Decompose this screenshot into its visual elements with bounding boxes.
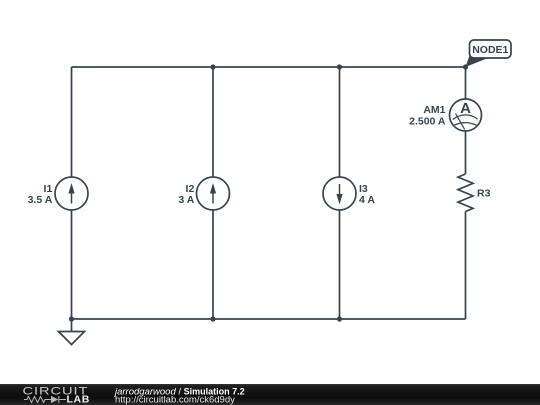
label AM1 value 2.500 A xyxy=(409,104,446,128)
wire bottom horizontal xyxy=(72,318,466,320)
label I3 value 4 A xyxy=(359,183,375,206)
wire right vertical upper (node to ammeter to resistor) xyxy=(465,67,467,174)
junction node bottom I3 xyxy=(337,316,342,321)
svg-text:AM1: AM1 xyxy=(423,104,445,116)
label I1 value 3.5 A xyxy=(28,183,53,206)
junction node top I2 xyxy=(210,64,215,69)
wire left vertical (I1 branch) xyxy=(71,67,73,319)
svg-text:4 A: 4 A xyxy=(359,194,375,206)
ground xyxy=(59,319,85,345)
current source I1 xyxy=(55,177,88,210)
wire I2 branch vertical xyxy=(212,67,214,319)
current source I2 xyxy=(197,177,230,210)
junction node top I3 xyxy=(337,64,342,69)
label I2 value 3 A xyxy=(178,183,194,206)
wire top horizontal xyxy=(72,66,466,68)
junction node ground xyxy=(69,316,74,321)
junction node bottom I2 xyxy=(210,316,215,321)
svg-text:2.500 A: 2.500 A xyxy=(409,116,446,128)
svg-text:LAB: LAB xyxy=(67,394,90,405)
svg-text:R3: R3 xyxy=(477,188,491,200)
resistor R3 xyxy=(458,174,473,212)
svg-text:3 A: 3 A xyxy=(178,194,194,206)
wire right vertical lower (resistor to bottom) xyxy=(465,212,467,320)
junction node NODE1 xyxy=(463,64,468,69)
current source I3 xyxy=(323,177,356,210)
logo resistor squiggle + diode xyxy=(24,396,66,403)
ammeter AM1 xyxy=(450,99,482,131)
node NODE1 flag xyxy=(466,40,512,67)
svg-text:NODE1: NODE1 xyxy=(472,44,508,56)
wire I3 branch vertical xyxy=(339,67,341,319)
svg-text:http://circuitlab.com/ck6d9dy: http://circuitlab.com/ck6d9dy xyxy=(115,395,235,405)
svg-text:3.5 A: 3.5 A xyxy=(28,194,53,206)
footer bar xyxy=(0,384,540,405)
